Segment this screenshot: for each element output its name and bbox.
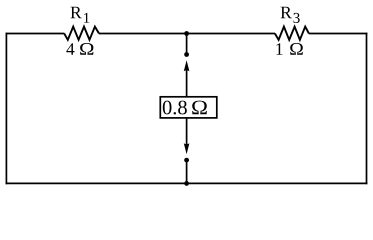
resistor R3	[275, 27, 309, 40]
resistor R1	[64, 27, 99, 40]
wire top-middle segment (R1 to node A)	[99, 33, 187, 35]
value label 1 ohm	[276, 43, 302, 55]
wire right side	[366, 33, 368, 185]
wire middle branch lower	[186, 160, 188, 183]
resistance box	[160, 97, 217, 118]
value label 0.8 ohm	[163, 101, 207, 115]
current arrow up (head)	[184, 60, 190, 71]
junction dot lower branch endpoint	[184, 158, 189, 163]
junction dot upper branch endpoint	[184, 52, 189, 57]
current arrow down (head)	[184, 143, 190, 154]
wire top segment (node A to R3)	[187, 33, 275, 35]
label R1	[71, 7, 90, 23]
current arrow up (shaft)	[186, 66, 188, 97]
junction node B (bottom)	[184, 181, 189, 186]
current arrow down (shaft)	[186, 118, 188, 149]
wire top-right segment	[309, 33, 368, 35]
junction node A (top)	[184, 31, 189, 36]
wire bottom	[6, 182, 368, 184]
wire middle branch upper	[186, 34, 188, 55]
wire left side	[5, 33, 7, 185]
wire top-left segment	[6, 33, 65, 35]
label R3	[281, 7, 300, 23]
value label 4 ohm	[66, 43, 93, 55]
